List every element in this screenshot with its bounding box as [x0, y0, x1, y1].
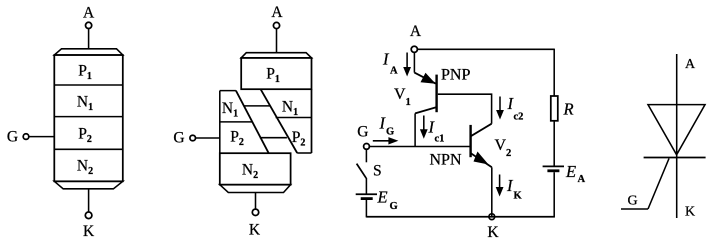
battery EA short plate — [547, 169, 559, 172]
svg-text:E: E — [377, 188, 388, 207]
layer divider P1/N1 — [54, 84, 123, 86]
svg-text:V: V — [394, 86, 406, 103]
terminal A circle (circuit) — [411, 46, 417, 52]
right crystal bottom edge — [297, 152, 311, 154]
wire battery EG to bottom rail — [365, 200, 367, 217]
node K circle on rail — [489, 214, 495, 220]
transistor V2 collector diagonal — [471, 124, 492, 137]
cut face divider lower — [260, 137, 287, 139]
svg-text:K: K — [249, 222, 261, 239]
svg-text:K: K — [514, 191, 523, 202]
svg-text:R: R — [563, 100, 574, 119]
thyristor triangle — [648, 105, 705, 155]
switch S blade — [357, 164, 367, 179]
transistor V1 collector diagonal — [415, 107, 437, 113]
thyristor gate lead diagonal — [648, 159, 669, 210]
transistor V1 emitter arrow (PNP, into base) — [414, 73, 435, 84]
resistor R — [551, 96, 558, 121]
wire A down to V1 emitter — [413, 52, 415, 72]
svg-text:K: K — [685, 205, 695, 220]
svg-text:A: A — [83, 5, 95, 22]
bottom rail wire — [366, 216, 555, 218]
svg-text:G: G — [627, 194, 637, 209]
cathode bottom electrode skirt (structure 1) — [54, 181, 123, 189]
svg-text:S: S — [373, 163, 382, 180]
cut face divider upper — [244, 105, 270, 107]
current arrow Ic2 — [499, 97, 501, 112]
right N1/P2 divider — [276, 117, 312, 119]
N2 box (structure 2) — [220, 153, 291, 185]
diagonal cut line 1 — [236, 91, 269, 154]
wire A to box (structure 1) — [88, 29, 90, 49]
wire A to P1 (structure 2) — [276, 29, 278, 53]
svg-text:A: A — [271, 4, 283, 21]
svg-text:NPN: NPN — [430, 152, 462, 169]
svg-text:G: G — [7, 129, 18, 146]
terminal G circle (structure 1) — [23, 134, 29, 140]
battery EG short plate — [361, 197, 373, 200]
left N1/P2 divider — [220, 121, 253, 123]
current arrow IA — [406, 53, 408, 69]
svg-text:G: G — [173, 130, 184, 147]
svg-text:c2: c2 — [514, 112, 524, 123]
wire battery EA to bottom rail — [553, 172, 555, 217]
svg-text:A: A — [410, 23, 422, 40]
svg-text:K: K — [83, 223, 95, 240]
anode electrode lid (structure 2) — [241, 53, 311, 58]
current arrow Ic1 — [423, 116, 425, 131]
PNPN box outline (structure 1) — [54, 55, 123, 181]
left crystal left edge — [219, 91, 221, 154]
transistor V1 base bar — [435, 75, 437, 113]
svg-text:c1: c1 — [435, 134, 445, 145]
terminal G circle (structure 2) — [190, 135, 196, 141]
current arrow IG — [373, 140, 390, 142]
P1 box (structure 2) — [241, 58, 311, 89]
svg-text:G: G — [390, 201, 398, 212]
wire V1 base to V2 collector branch — [438, 94, 492, 124]
thyristor cathode bar — [644, 157, 706, 159]
svg-text:2: 2 — [506, 148, 511, 159]
anode top electrode lid (structure 1) — [54, 49, 123, 55]
svg-text:A: A — [390, 66, 398, 77]
wire resistor to battery EA — [553, 121, 555, 166]
terminal A circle (structure 1) — [86, 22, 92, 28]
wire V1 collector down to gate node — [414, 113, 416, 146]
transistor V2 base bar — [469, 125, 471, 157]
svg-text:K: K — [487, 224, 499, 241]
svg-text:PNP: PNP — [441, 67, 470, 84]
terminal G circle (circuit) — [364, 144, 370, 150]
terminal K circle (structure 2) — [252, 209, 258, 215]
layer divider N1/P2 — [54, 116, 123, 118]
wire right rail down to resistor — [553, 49, 555, 96]
wire G to crystal (structure 2) — [196, 137, 220, 139]
terminal K circle (structure 1) — [85, 212, 92, 219]
wire G to box (structure 1) — [29, 136, 55, 138]
wire gate to V2 base — [369, 146, 469, 148]
svg-text:A: A — [685, 57, 696, 72]
battery EG long plate — [356, 193, 377, 195]
wire switch to battery EG — [365, 178, 367, 194]
svg-text:1: 1 — [406, 97, 411, 108]
layer divider P2/N2 — [54, 148, 123, 150]
thyristor gate lead horizontal — [621, 208, 648, 210]
current arrow IK — [499, 175, 501, 189]
svg-text:G: G — [357, 124, 368, 141]
wire V2 emitter to K node — [491, 167, 493, 216]
battery EA long plate — [543, 165, 564, 167]
cathode electrode skirt (structure 2) — [220, 185, 291, 193]
thyristor vertical lead — [676, 54, 678, 218]
wire top rail A to R branch — [417, 48, 554, 50]
transistor V2 emitter arrow (NPN, away from base) — [471, 153, 492, 167]
terminal A circle (structure 2) — [273, 22, 279, 28]
svg-text:A: A — [578, 174, 586, 185]
svg-text:V: V — [495, 137, 507, 154]
diagonal cut line 2 — [261, 89, 298, 153]
wire N2 to K (structure 2) — [255, 193, 257, 210]
svg-text:G: G — [386, 127, 394, 138]
svg-text:E: E — [565, 162, 576, 181]
left crystal top edge — [220, 90, 236, 92]
wire box to K (structure 1) — [88, 189, 90, 212]
wire G circle down to switch — [365, 149, 367, 162]
right crystal right edge — [311, 89, 313, 153]
